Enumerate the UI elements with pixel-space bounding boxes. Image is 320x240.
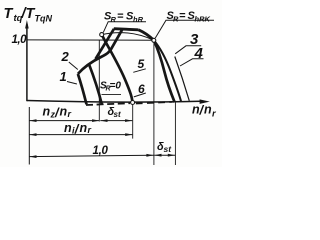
thick droop curve from P2 to axis (154, 40, 175, 102)
svg-text:n: n (80, 121, 88, 135)
svg-text:5: 5 (138, 57, 145, 71)
svg-text:T: T (4, 6, 14, 22)
dimension line 1,0 bottom (29, 155, 153, 156)
plateau right side descending to P2 (139, 30, 154, 41)
leader for 6 (134, 93, 146, 97)
thin curve 4 (rightmost) (175, 57, 190, 101)
node P2 (152, 38, 156, 42)
leader for 1 (67, 82, 77, 85)
leader from P2 to S_R=S_hRK label (155, 20, 214, 38)
leader for 2 (69, 62, 78, 70)
left anchor extension line (28, 107, 30, 165)
svg-text:st: st (114, 110, 121, 119)
droop line L2b (to top plateau) (110, 29, 122, 50)
svg-text:hRK: hRK (195, 14, 211, 23)
thin curve 3 (droop right of P2) (154, 40, 181, 102)
x-axis (27, 101, 201, 103)
S_R=0 label shelf (102, 93, 122, 95)
svg-text:=0: =0 (110, 81, 122, 92)
svg-text:r: r (88, 125, 92, 135)
S_R=0 governor line (steep, from curve 2 to axis) (89, 64, 102, 104)
shelf and leader for 3 (175, 46, 201, 54)
svg-text:1,0: 1,0 (12, 34, 28, 46)
shelf and leader for 4 (180, 59, 204, 66)
dashed friction line below axis (86, 103, 130, 105)
curve 2 (gentle rising branch) (78, 50, 111, 74)
leader for 5 (133, 69, 146, 73)
svg-text:st: st (164, 144, 173, 154)
governor droop line L1 from P1 to axis circle (102, 35, 133, 103)
dimension delta_st 1 (100, 120, 132, 122)
node on axis (zero-torque point of L1) (131, 101, 135, 105)
extension line at n_z (below P1 line) (98, 40, 100, 121)
node P1 (100, 33, 104, 37)
svg-text:1,0: 1,0 (93, 145, 109, 157)
y-axis (26, 24, 28, 101)
extension line from axis circle down (132, 105, 134, 139)
top plateau segment (114, 29, 139, 30)
svg-text:n: n (64, 121, 72, 135)
svg-text:n: n (60, 105, 68, 119)
svg-text:R: R (111, 15, 117, 24)
extension line from P2 down (153, 43, 155, 165)
svg-text:hR: hR (133, 15, 144, 24)
dimension line n_z/n_r (29, 120, 99, 122)
svg-text:=: = (117, 11, 124, 23)
y-axis arrowhead (25, 20, 29, 29)
dimension delta_st 2 (154, 154, 175, 156)
svg-text:/T: /T (21, 6, 36, 22)
extension line at runaway speed (174, 102, 176, 166)
svg-text:r: r (68, 109, 72, 119)
leader from P1 to S_R=S_hR label (103, 22, 146, 33)
droop line L2a (to top plateau left end) (96, 29, 115, 59)
svg-text:n: n (43, 105, 51, 119)
x-axis arrowhead (200, 99, 210, 104)
svg-text:TqN: TqN (35, 14, 53, 24)
svg-text:4: 4 (194, 45, 204, 62)
1,0 level line (28, 39, 154, 41)
thin arc from P1 to P2 (102, 33, 154, 41)
svg-text:=: = (179, 10, 186, 22)
svg-text:1: 1 (60, 69, 67, 84)
dimension line n_i/n_r (29, 134, 132, 136)
curve 1 (steep drop from kink to axis) (78, 74, 87, 104)
svg-text:n: n (204, 103, 212, 117)
svg-text:2: 2 (61, 49, 70, 64)
